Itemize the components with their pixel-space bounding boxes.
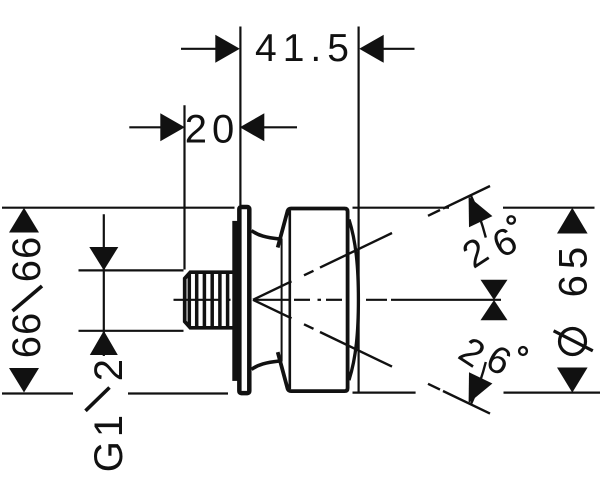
- body seam line: [288, 211, 291, 390]
- dimension 66/66: top extension line: [2, 207, 235, 209]
- svg-text:2: 2: [87, 359, 131, 381]
- body outline: [278, 209, 348, 392]
- dimension 66/66: up arrowhead: [9, 208, 39, 233]
- dimension dia65: up arrowhead: [557, 208, 588, 234]
- dimension dia65: diameter symbol circle: [560, 329, 586, 355]
- dimension 20: right tail line: [263, 126, 297, 128]
- dimension 41.5: left arrowhead: [215, 35, 240, 63]
- dimension 20: left tail line: [129, 126, 162, 128]
- dimension dia65: bottom extension line segments: [353, 392, 416, 394]
- angle dimension: upper arrowhead on spray line: [469, 197, 493, 228]
- dimension G1/2: slash: [86, 388, 110, 411]
- svg-text:65: 65: [551, 241, 595, 298]
- extension line left of 20 (x=184.5): [183, 105, 185, 269]
- body front spherical face arc: [349, 220, 358, 381]
- lower spray axis (dash-dot at 26 deg): [253, 300, 292, 319]
- cone top edge (plate to body): [252, 231, 280, 239]
- dimension G1/2: dimension line: [103, 214, 105, 356]
- dimension 66/66: down arrowhead: [9, 368, 39, 393]
- angle dimension arc, upper segment: [471, 196, 486, 238]
- svg-text:G1: G1: [87, 411, 131, 472]
- thread ridge lines: [188, 273, 192, 328]
- dimension dia65: down arrowhead: [557, 368, 588, 393]
- angle dimension: hourglass arrows at center line: [481, 280, 508, 300]
- extension line left of 41.5 (x=240.4): [239, 27, 241, 206]
- angle dimension: lower arrowhead on spray line: [469, 372, 493, 403]
- G1/2 thread: outer profile with chamfered left corners: [185, 272, 234, 328]
- extension line right of 41.5 (x=358.6): [358, 27, 360, 394]
- cone right edge: [281, 239, 283, 362]
- svg-text:66: 66: [5, 312, 49, 359]
- thread bottom extension line: [79, 330, 184, 332]
- center line (horizontal axis, dash-dot): [174, 299, 221, 301]
- angle dimension arc, lower segment: [471, 362, 486, 404]
- dimension 66/66: slash: [13, 286, 43, 311]
- upper spray axis (dash-dot at 26 deg): [253, 281, 292, 300]
- dimension 20: left arrowhead: [160, 113, 185, 141]
- dimension G1/2: up arrowhead (lower): [90, 331, 118, 355]
- dimension 66/66: bottom extension line (two segments, break at G1/2 text): [2, 392, 73, 394]
- svg-text:41.5: 41.5: [255, 27, 355, 70]
- wall plate (escutcheon, edge view): [239, 207, 249, 393]
- dimension 41.5 top: left tail line: [181, 48, 217, 50]
- svg-text:20: 20: [185, 108, 240, 152]
- dimension dia65: diameter symbol slash: [554, 331, 593, 351]
- dimension 20: right arrowhead: [240, 113, 264, 141]
- dimension 41.5: right arrowhead: [359, 35, 384, 63]
- dimension G1/2: down arrowhead (upper): [89, 247, 118, 270]
- mounting nut (bar behind wall plate): [232, 221, 241, 381]
- thread top extension line: [79, 269, 184, 271]
- cone bottom edge: [252, 361, 280, 369]
- svg-text:66: 66: [5, 236, 49, 283]
- dimension 41.5: right tail line: [382, 48, 415, 50]
- dimension dia65: top extension line segments: [353, 207, 450, 209]
